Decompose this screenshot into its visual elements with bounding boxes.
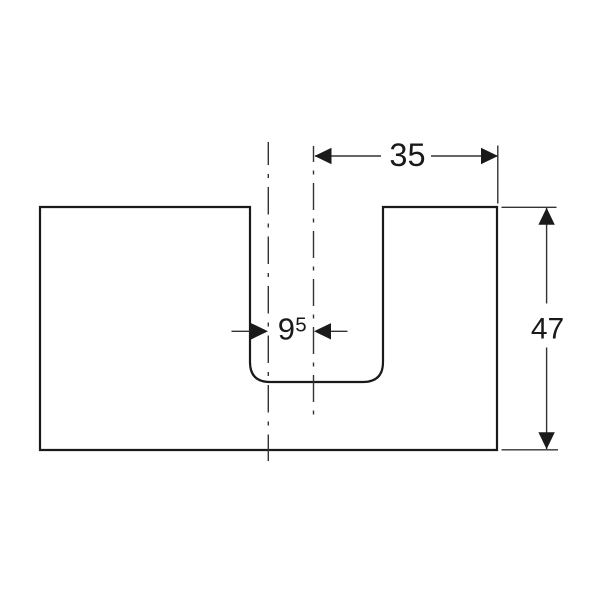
svg-text:47: 47	[531, 313, 564, 346]
svg-text:9: 9	[278, 312, 295, 347]
dimension 35 extension line right	[497, 146, 499, 204]
panel outline with U-notch	[40, 207, 497, 450]
dimension 9.5 arrow left (points right)	[251, 323, 268, 339]
centerline left	[267, 142, 269, 461]
dimension 47 extension line bottom	[502, 449, 559, 451]
dimension 47 line lower segment	[546, 348, 548, 450]
dimension 47 extension line top	[502, 206, 557, 208]
dimension 35 arrow left	[315, 148, 332, 164]
dimension 35 line left segment	[315, 155, 381, 157]
centerline right	[313, 146, 315, 419]
dimension 47 arrow down	[538, 432, 554, 449]
dimension 9.5 tail right	[331, 330, 348, 332]
dimension 35 line right segment	[431, 155, 498, 157]
dimension 35 arrow right	[481, 148, 498, 164]
svg-text:35: 35	[389, 137, 425, 173]
dimension 47 arrow up	[538, 208, 554, 225]
dimension 9.5 tail left	[232, 330, 251, 332]
dimension 9.5 arrow right (points left)	[314, 323, 331, 339]
svg-text:5: 5	[295, 313, 306, 336]
dimension 47 line upper segment	[546, 208, 548, 304]
